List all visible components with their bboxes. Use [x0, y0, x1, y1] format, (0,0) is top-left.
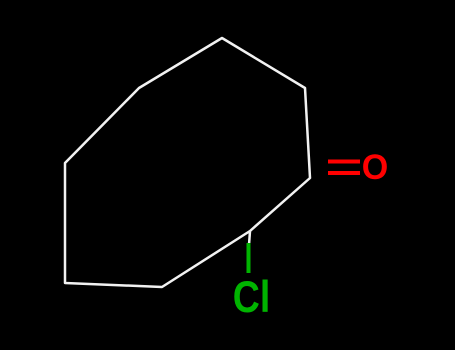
cyclooctanone ring (8 C-C bonds) [65, 38, 310, 287]
svg-text:O: O [362, 147, 389, 187]
C-Cl bond white part [249, 231, 250, 245]
svg-text:Cl: Cl [233, 273, 271, 322]
carbonyl double bond line 1 [328, 160, 360, 164]
C-Cl bond green part [247, 243, 251, 273]
carbonyl double bond line 2 [328, 171, 360, 175]
